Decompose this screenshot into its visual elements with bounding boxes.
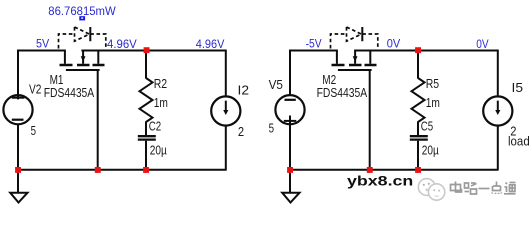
label FDS4435A (M2) — [317, 85, 368, 100]
label FDS4435A — [44, 85, 95, 100]
watermark logo (two grey circles) — [418, 179, 444, 201]
junction dot (V5 bottom / ground) — [287, 167, 293, 173]
svg-text:C5: C5 — [421, 118, 433, 133]
svg-text:FDS4435A: FDS4435A — [44, 85, 95, 100]
label C5 — [421, 118, 433, 133]
svg-text:4.96V: 4.96V — [107, 39, 137, 51]
wire R2 bottom to C2 top — [145, 122, 147, 136]
voltage source V2 — [3, 95, 32, 124]
wire ground rail (left circuit) — [17, 169, 227, 171]
label C2 — [149, 118, 161, 133]
svg-text:0V: 0V — [476, 39, 489, 51]
junction dot (C5 bottom at rail) — [415, 167, 421, 173]
wire ground stub (right) — [289, 170, 291, 193]
current source I2 — [211, 96, 240, 125]
voltage source V5 (flipped) — [275, 95, 304, 124]
label V5 — [269, 77, 283, 92]
label 5 (V5 value) — [269, 121, 274, 136]
svg-text:20µ: 20µ — [422, 142, 439, 157]
wire I5 bottom to rail — [497, 126, 499, 171]
label R2 — [154, 76, 167, 91]
svg-text:FDS4435A: FDS4435A — [317, 85, 368, 100]
wire -5V net: V5 top vertical + top horizontal to M2 source — [290, 51, 338, 96]
svg-text:0V: 0V — [387, 38, 401, 50]
wire 0V net: M2 bulk/drain to I5 top — [354, 51, 498, 97]
char 路 — [465, 183, 477, 194]
node label 4.96V (load net) — [196, 39, 225, 51]
junction dot (R2 top net) — [144, 47, 150, 53]
power annotation 86.76815mW — [48, 4, 116, 18]
svg-text:5V: 5V — [36, 39, 49, 51]
junction dot (V2 bottom / ground) — [15, 167, 21, 173]
mosfet M2 — [332, 51, 377, 70]
svg-text:2: 2 — [238, 124, 244, 139]
wire ground stub (left) — [17, 170, 19, 193]
capacitor C2 — [138, 136, 156, 139]
ground (left) — [10, 193, 27, 203]
label 20µ (C5) — [422, 142, 439, 157]
svg-text:I2: I2 — [238, 82, 250, 97]
svg-text:load: load — [508, 134, 530, 149]
node label 0V (drain net) — [387, 38, 401, 50]
label M1 — [50, 72, 64, 87]
svg-text:R5: R5 — [426, 76, 439, 91]
char 点 — [492, 182, 502, 195]
junction dot (C2 bottom at rail) — [143, 167, 149, 173]
junction dot (gate at rail) — [95, 167, 101, 173]
label I2 — [238, 82, 250, 97]
wire R5 top connection — [417, 51, 419, 79]
label 2 (I2 value) — [238, 124, 244, 139]
label 5 (V2 value) — [31, 123, 36, 138]
svg-text:4.96V: 4.96V — [196, 39, 225, 51]
svg-text:ybx8.cn: ybx8.cn — [347, 174, 413, 190]
svg-text:1m: 1m — [154, 95, 168, 110]
watermark 电路一点通 (grey CJK strokes) — [451, 182, 516, 195]
label V2 — [29, 81, 41, 96]
wire R2 top connection — [145, 51, 147, 79]
current source I5 — [483, 96, 512, 125]
junction dot (M2 gate at rail) — [367, 167, 373, 173]
wire M2 gate to ground rail — [369, 70, 371, 171]
label M2 — [322, 72, 336, 87]
svg-text:R2: R2 — [154, 76, 167, 91]
label 1m (R5) — [426, 95, 440, 110]
resistor R2 — [140, 78, 153, 122]
label load — [508, 134, 530, 149]
wire ground rail (right circuit) — [289, 169, 498, 171]
node label 0V (load net) — [476, 39, 489, 51]
wire R5 bottom to C5 top — [417, 122, 419, 136]
wire 5V net: V2 top vertical + top horizontal to M1 source — [18, 51, 66, 100]
char 电 — [451, 182, 462, 193]
char 一 — [479, 188, 490, 190]
svg-text:1m: 1m — [426, 95, 440, 110]
M2 body diode (dashed) — [331, 27, 378, 49]
svg-text:5: 5 — [269, 121, 274, 136]
node label 4.96V (drain net) — [107, 39, 137, 51]
svg-text:5: 5 — [31, 123, 36, 138]
wire V2 bottom to rail — [17, 124, 19, 170]
label R5 — [426, 76, 439, 91]
wire V5 bottom to rail — [289, 116, 291, 171]
svg-text:V5: V5 — [269, 77, 283, 92]
svg-text:-5V: -5V — [306, 39, 322, 51]
svg-text:C2: C2 — [149, 118, 161, 133]
mosfet M1 — [60, 51, 105, 70]
ground (right) — [282, 193, 299, 203]
svg-text:V2: V2 — [29, 81, 41, 96]
power probe icon — [79, 16, 85, 20]
wire 4.96V net: M1 bulk/drain to I2 top — [81, 51, 225, 97]
label I5 — [512, 80, 524, 95]
node label 5V — [36, 39, 49, 51]
svg-text:20µ: 20µ — [150, 142, 167, 157]
svg-text:I5: I5 — [512, 80, 524, 95]
resistor R5 — [412, 78, 425, 122]
label 20µ — [150, 142, 167, 157]
label 1m — [154, 95, 168, 110]
M1 body diode (dashed) — [59, 27, 106, 49]
watermark ybx8.cn — [347, 174, 413, 190]
wire M1 gate to ground rail — [97, 70, 99, 171]
wire C5 bottom to rail — [417, 141, 419, 171]
wire C2 bottom to rail — [145, 141, 147, 171]
node label -5V — [306, 39, 322, 51]
svg-text:86.76815mW: 86.76815mW — [48, 4, 116, 18]
capacitor C5 — [410, 136, 428, 139]
label 2 (I5 value) — [510, 124, 516, 139]
char 通 — [504, 183, 516, 194]
junction dot (R5 top net) — [415, 47, 421, 53]
wire I2 bottom to rail — [225, 126, 227, 171]
